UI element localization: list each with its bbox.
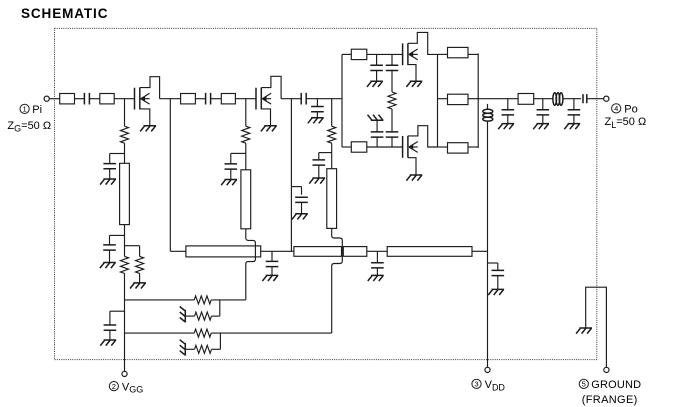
wire — [235, 98, 256, 100]
capacitor C19 bypass — [371, 263, 384, 268]
wire — [468, 53, 478, 55]
wire drain1 feed drop — [170, 99, 186, 252]
wire — [542, 115, 544, 124]
ground C13 inverted — [368, 115, 384, 121]
transistor Q1 — [135, 88, 150, 110]
capacitor C11 ballast — [386, 65, 399, 70]
wire — [245, 143, 247, 170]
wire branch — [291, 186, 301, 188]
resistor R8 — [195, 312, 212, 320]
svg-text:ZL=50 Ω: ZL=50 Ω — [605, 116, 647, 130]
ground C4 — [100, 340, 116, 346]
terminal 4 Po — [604, 96, 609, 101]
svg-text:VDD: VDD — [485, 379, 506, 392]
svg-text:Po: Po — [624, 103, 637, 115]
ground C9 — [309, 178, 325, 184]
wire — [342, 146, 351, 148]
wire — [212, 348, 221, 350]
capacitor C2 bypass — [103, 164, 116, 169]
capacitor C20 VDD bypass — [492, 270, 505, 275]
transistor Q4 — [403, 136, 418, 158]
output line box mid — [448, 94, 469, 104]
wire Q1 source — [140, 109, 150, 126]
wire gate3 bias hop — [332, 228, 343, 333]
wire — [376, 268, 378, 276]
capacitor C3 bypass — [103, 245, 116, 250]
ground C8 — [308, 118, 324, 124]
label pin 4 Po — [612, 103, 638, 115]
wire — [534, 98, 554, 100]
resistor R6 ballast — [388, 92, 396, 109]
wire — [139, 246, 141, 257]
wire — [391, 71, 393, 93]
ground C20 — [488, 289, 504, 295]
capacitor C17 — [583, 94, 587, 103]
capacitor C12 ballast — [386, 132, 399, 137]
ground C2 — [100, 179, 116, 185]
capacitor C15 bypass — [537, 110, 550, 115]
resistor R2 — [136, 256, 144, 273]
resistor R9 — [194, 329, 211, 337]
wire — [139, 273, 141, 283]
wire branch — [125, 245, 140, 247]
wire — [125, 299, 195, 301]
svg-text:4: 4 — [614, 104, 618, 113]
matching element box 7 — [518, 94, 534, 105]
matching element box 4 — [221, 94, 235, 104]
wire — [211, 98, 222, 100]
ground C18 — [262, 275, 278, 281]
wire — [376, 120, 378, 132]
wire gate2 bias hop — [246, 229, 256, 300]
wire — [367, 146, 403, 148]
wire — [109, 169, 111, 179]
wire drain combine vertical — [437, 54, 439, 147]
wire shunt cap drop — [507, 99, 509, 110]
capacitor C14 bypass — [502, 110, 515, 115]
transistor Q2 — [256, 88, 271, 110]
wire — [342, 53, 351, 55]
wire — [318, 153, 320, 160]
matching element box 3 — [181, 94, 196, 104]
wire — [195, 98, 205, 100]
wire shunt cap drop — [271, 251, 273, 261]
wire — [124, 143, 126, 163]
wire flange ground stub — [586, 287, 607, 367]
matching element box 5 — [351, 49, 367, 59]
wire Q4 source — [408, 158, 416, 175]
label pin 3 VDD — [472, 379, 506, 392]
wire gate3 bias drop — [331, 99, 333, 127]
drain line TL5 — [294, 247, 342, 257]
wire shunt cap drop — [542, 99, 544, 110]
ground R2 — [130, 283, 146, 289]
ground Q3 source — [406, 81, 422, 87]
wire ballast top drop — [391, 54, 393, 65]
svg-text:GROUND: GROUND — [591, 379, 641, 391]
matching element box 2 — [100, 94, 114, 104]
capacitor C5 — [206, 93, 211, 105]
wire — [109, 330, 111, 340]
label pin 5 GROUND — [579, 379, 641, 391]
wire — [573, 115, 575, 124]
ground C3 — [100, 263, 116, 269]
wire branch — [110, 153, 125, 155]
resistor R7 — [194, 296, 211, 304]
wire — [49, 98, 59, 100]
capacitor C10 bypass — [370, 65, 383, 70]
inductor L1 shunt — [483, 104, 493, 121]
stub line TL1 — [120, 163, 130, 224]
label pin 2 VGG — [109, 381, 143, 394]
wire — [438, 146, 448, 148]
ground Q1 source — [140, 126, 156, 132]
svg-text:Pi: Pi — [32, 104, 42, 116]
wire — [109, 235, 111, 245]
wire — [212, 315, 220, 317]
wire Q3 source — [408, 65, 416, 82]
wire — [230, 153, 232, 164]
wire — [114, 98, 134, 100]
wire — [281, 98, 301, 100]
ground C19 — [368, 275, 384, 281]
wire — [391, 137, 393, 147]
chassis ground row D — [180, 340, 186, 356]
stub line TL2 — [241, 170, 251, 229]
terminal 5 GROUND — [604, 367, 609, 372]
stub line TL3 — [327, 169, 337, 229]
matching element box 6 — [351, 142, 367, 152]
svg-text:3: 3 — [474, 380, 478, 389]
ground C10 — [367, 81, 383, 87]
wire — [109, 154, 111, 164]
wire — [367, 53, 403, 55]
svg-text:SCHEMATIC: SCHEMATIC — [21, 6, 108, 21]
wire branch — [110, 310, 125, 312]
wire branch — [488, 262, 498, 264]
wire — [230, 169, 232, 179]
wire branch — [231, 152, 246, 154]
svg-text:1: 1 — [22, 105, 26, 114]
ground Q4 source — [406, 175, 422, 181]
wire — [316, 112, 318, 118]
wire Q1 drain — [140, 77, 160, 99]
capacitor C21 bypass — [295, 197, 308, 202]
wire — [271, 267, 273, 276]
wire — [563, 98, 581, 100]
wire — [376, 71, 378, 82]
matching element box 1 — [60, 94, 75, 104]
capacitor C13 bypass — [371, 132, 384, 137]
wire — [587, 98, 604, 100]
ground Q2 source — [261, 126, 277, 132]
wire — [89, 98, 99, 100]
wire — [497, 276, 499, 290]
capacitor C8 bypass — [311, 107, 324, 112]
wire — [211, 299, 246, 301]
capacitor C7 — [301, 93, 306, 105]
terminal 2 VGG — [122, 371, 127, 376]
capacitor C18 bypass — [266, 261, 279, 266]
transistor Q3 — [403, 43, 418, 65]
inductor L2 series — [553, 93, 563, 105]
wire — [185, 315, 194, 317]
capacitor C6 bypass — [225, 164, 238, 169]
svg-text:5: 5 — [582, 380, 586, 389]
wire Q4 drain — [408, 126, 438, 147]
drain line TL6 — [343, 247, 367, 257]
wire — [391, 109, 393, 132]
wire — [261, 250, 294, 252]
wire — [301, 202, 303, 213]
wire — [160, 98, 181, 100]
wire — [219, 333, 221, 349]
capacitor C9 bypass — [313, 160, 326, 165]
ground C21 — [292, 214, 308, 220]
output line box top — [448, 47, 469, 57]
wire Q2 drain — [261, 76, 281, 98]
ground C14 — [498, 124, 514, 130]
wire — [185, 348, 194, 350]
wire branch — [110, 234, 125, 236]
wire shunt cap drop — [573, 99, 575, 110]
wire — [109, 250, 111, 262]
wire — [472, 250, 488, 252]
resistor R4 — [242, 126, 250, 143]
wire — [468, 98, 478, 100]
ground C15 — [533, 124, 549, 130]
wire — [219, 300, 221, 316]
ground C16 — [564, 124, 580, 130]
terminal 3 VDD — [485, 367, 490, 372]
wire — [438, 53, 448, 55]
wire shunt cap drop — [316, 99, 318, 107]
wire — [478, 98, 518, 100]
wire — [124, 225, 126, 257]
svg-text:(FRANGE): (FRANGE) — [582, 394, 638, 406]
wire Q2 source — [261, 109, 270, 126]
capacitor C4 VGG bypass — [104, 325, 117, 330]
wire splitter vertical — [341, 54, 343, 147]
wire — [306, 98, 342, 100]
label pin 1 Pi — [20, 104, 42, 116]
wire — [367, 250, 387, 252]
resistor R10 — [195, 345, 212, 353]
wire shunt cap drop — [376, 251, 378, 262]
wire gate1 bias drop — [124, 99, 126, 127]
wire — [75, 98, 85, 100]
ground flange — [576, 328, 592, 334]
wire — [331, 143, 333, 169]
wire — [507, 115, 509, 124]
wire — [301, 187, 303, 195]
terminal 1 Pi — [44, 96, 49, 101]
wire Q3 drain — [408, 32, 438, 54]
svg-text:2: 2 — [112, 382, 116, 391]
chassis ground row B — [180, 307, 186, 323]
drain line TL7 — [387, 247, 472, 257]
svg-text:ZG=50 Ω: ZG=50 Ω — [7, 120, 51, 134]
wire — [211, 332, 332, 334]
wire output combine vertical — [477, 54, 479, 149]
wire — [468, 146, 478, 148]
wire shunt cap rise — [376, 137, 378, 147]
capacitor C16 bypass — [568, 110, 581, 115]
wire — [497, 263, 499, 270]
resistor R5 — [328, 126, 336, 143]
resistor R3 — [121, 256, 129, 273]
svg-text:VGG: VGG — [122, 381, 143, 394]
drain line TL4 — [186, 246, 261, 257]
wire branch — [319, 152, 332, 154]
wire shunt cap drop — [376, 54, 378, 65]
wire VDD feed vertical — [487, 121, 489, 367]
wire gate2 bias drop — [245, 99, 247, 127]
ground C6 — [221, 180, 237, 186]
resistor R1 — [121, 126, 129, 143]
capacitor C1 — [84, 93, 89, 105]
wire drain2 feed drop — [290, 99, 292, 252]
wire — [318, 165, 320, 178]
wire — [438, 98, 448, 100]
wire — [125, 332, 195, 334]
wire VGG feed — [124, 273, 126, 371]
wire — [109, 311, 111, 325]
output line box bottom — [448, 143, 469, 153]
dashed module border — [55, 28, 597, 359]
